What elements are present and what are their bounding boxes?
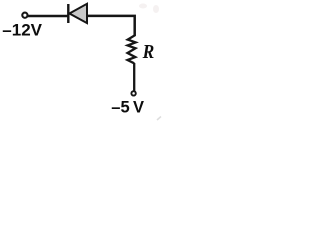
wire: resistor bottom to -5V terminal xyxy=(133,63,135,91)
svg-text:–5 V: –5 V xyxy=(111,98,144,116)
faint scan smudge top right xyxy=(139,4,159,14)
faint scan mark bottom right xyxy=(157,117,161,121)
svg-text:–12V: –12V xyxy=(2,21,42,40)
wire: -12V terminal to diode cathode xyxy=(28,15,68,17)
terminal node -12V (open circle) xyxy=(22,13,27,18)
terminal node -5V (open circle) xyxy=(131,91,135,95)
resistor R (vertical zigzag) xyxy=(128,35,136,64)
diode D1 cathode bar xyxy=(67,4,69,23)
diode D1 triangle (anode, pointing left, gray fill) xyxy=(69,4,87,23)
wire: diode anode to top-right corner, then down to resistor xyxy=(87,16,135,36)
svg-text:R: R xyxy=(142,41,155,64)
